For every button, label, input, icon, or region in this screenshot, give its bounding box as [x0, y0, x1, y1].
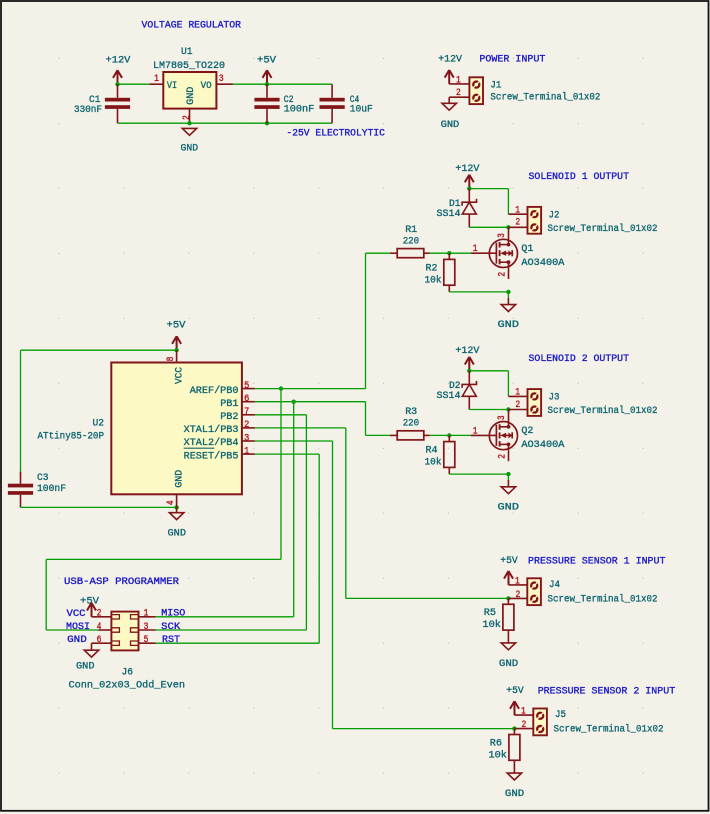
svg-text:+5V: +5V [506, 685, 524, 697]
svg-text:GND: GND [168, 528, 187, 540]
svg-text:1: 1 [521, 707, 526, 718]
svg-text:+12V: +12V [106, 54, 132, 66]
svg-text:+12V: +12V [455, 163, 480, 175]
svg-text:R4: R4 [426, 445, 438, 457]
svg-text:U2: U2 [93, 418, 105, 430]
svg-text:8: 8 [166, 357, 177, 362]
svg-text:2: 2 [182, 115, 193, 120]
svg-text:2: 2 [498, 272, 509, 277]
svg-text:SOLENOID 2 OUTPUT: SOLENOID 2 OUTPUT [529, 353, 630, 365]
svg-text:GND: GND [173, 470, 185, 488]
svg-text:Screw_Terminal_01x02: Screw_Terminal_01x02 [554, 724, 664, 736]
svg-text:Screw_Terminal_01x02: Screw_Terminal_01x02 [548, 405, 658, 417]
svg-text:2: 2 [244, 420, 249, 431]
svg-text:AREF/PB0: AREF/PB0 [190, 385, 239, 397]
svg-text:Screw_Terminal_01x02: Screw_Terminal_01x02 [548, 223, 658, 235]
svg-text:ATtiny85-20P: ATtiny85-20P [38, 431, 105, 443]
svg-text:100nF: 100nF [284, 104, 315, 116]
svg-text:2: 2 [516, 590, 521, 601]
svg-text:1: 1 [456, 76, 461, 87]
svg-text:GND: GND [505, 788, 524, 800]
svg-text:SS14: SS14 [437, 208, 461, 220]
svg-text:Q1: Q1 [521, 243, 533, 255]
svg-text:1: 1 [515, 388, 520, 399]
svg-text:Screw_Terminal_01x02: Screw_Terminal_01x02 [548, 593, 658, 605]
svg-text:SS14: SS14 [437, 390, 461, 402]
svg-text:SOLENOID 1 OUTPUT: SOLENOID 1 OUTPUT [529, 171, 630, 183]
svg-text:+5V: +5V [500, 555, 518, 567]
svg-text:VO: VO [201, 80, 212, 92]
svg-text:220: 220 [403, 418, 419, 430]
svg-text:R6: R6 [490, 737, 502, 749]
svg-text:GND: GND [181, 143, 199, 155]
svg-text:6: 6 [97, 635, 102, 646]
svg-text:10uF: 10uF [350, 104, 373, 116]
svg-text:3: 3 [497, 233, 508, 238]
svg-text:2: 2 [515, 400, 520, 411]
svg-text:GND: GND [185, 87, 197, 105]
svg-text:J2: J2 [549, 209, 560, 221]
svg-text:1: 1 [244, 446, 249, 457]
svg-text:1: 1 [473, 244, 478, 255]
svg-text:3: 3 [144, 622, 149, 633]
svg-text:2: 2 [456, 88, 461, 99]
svg-text:100nF: 100nF [37, 483, 66, 495]
svg-text:PB1: PB1 [220, 398, 238, 410]
svg-text:+12V: +12V [438, 53, 462, 65]
svg-text:U1: U1 [181, 46, 193, 58]
svg-text:10k: 10k [425, 457, 442, 469]
svg-text:4: 4 [166, 500, 177, 505]
svg-text:2: 2 [97, 609, 102, 620]
svg-text:2: 2 [498, 454, 509, 459]
svg-text:-25V ELECTROLYTIC: -25V ELECTROLYTIC [286, 128, 385, 140]
svg-text:2: 2 [522, 720, 527, 731]
svg-text:GND: GND [67, 634, 87, 646]
svg-text:J5: J5 [555, 709, 566, 721]
svg-text:J4: J4 [549, 579, 560, 591]
svg-text:10k: 10k [482, 619, 501, 631]
svg-text:J3: J3 [549, 392, 560, 404]
svg-text:RST: RST [162, 634, 180, 646]
svg-text:10k: 10k [488, 749, 507, 761]
svg-text:10k: 10k [425, 275, 442, 287]
svg-text:POWER INPUT: POWER INPUT [479, 53, 545, 65]
svg-text:Screw_Terminal_01x02: Screw_Terminal_01x02 [490, 91, 600, 103]
svg-text:1: 1 [144, 609, 149, 620]
svg-text:+12V: +12V [455, 345, 480, 357]
svg-text:3: 3 [244, 433, 249, 444]
svg-text:MISO: MISO [161, 608, 185, 620]
svg-text:3: 3 [219, 74, 224, 85]
svg-text:AO3400A: AO3400A [521, 257, 565, 269]
svg-text:MOSI: MOSI [66, 621, 90, 633]
svg-text:1: 1 [515, 577, 520, 588]
svg-text:7: 7 [244, 407, 249, 418]
svg-text:PRESSURE SENSOR 2 INPUT: PRESSURE SENSOR 2 INPUT [538, 686, 676, 698]
svg-text:6: 6 [244, 394, 249, 405]
svg-text:XTAL1/PB3: XTAL1/PB3 [184, 424, 239, 436]
svg-text:RESET/PB5: RESET/PB5 [184, 450, 239, 462]
svg-text:PB2: PB2 [220, 411, 238, 423]
svg-text:GND: GND [498, 319, 520, 331]
svg-text:330nF: 330nF [74, 104, 102, 116]
svg-text:Q2: Q2 [521, 425, 533, 437]
svg-text:1: 1 [515, 205, 520, 216]
svg-text:2: 2 [515, 218, 520, 229]
svg-text:1: 1 [154, 74, 159, 85]
svg-text:+5V: +5V [257, 54, 277, 66]
svg-text:XTAL2/PB4: XTAL2/PB4 [184, 437, 239, 449]
svg-text:5: 5 [244, 381, 249, 392]
svg-text:LM7805_TO220: LM7805_TO220 [153, 60, 225, 72]
svg-text:GND: GND [499, 658, 518, 670]
svg-text:+5V: +5V [167, 319, 187, 331]
svg-text:220: 220 [403, 235, 419, 247]
svg-text:VOLTAGE REGULATOR: VOLTAGE REGULATOR [142, 20, 242, 32]
svg-text:4: 4 [97, 622, 102, 633]
svg-text:J6: J6 [122, 667, 134, 679]
svg-text:USB-ASP PROGRAMMER: USB-ASP PROGRAMMER [64, 576, 180, 588]
svg-text:PRESSURE SENSOR 1 INPUT: PRESSURE SENSOR 1 INPUT [528, 556, 666, 568]
svg-text:3: 3 [497, 415, 508, 420]
svg-text:R5: R5 [484, 607, 496, 619]
svg-text:1: 1 [473, 426, 478, 437]
svg-text:GND: GND [498, 501, 520, 513]
svg-text:Conn_02x03_Odd_Even: Conn_02x03_Odd_Even [69, 680, 186, 692]
svg-text:R3: R3 [405, 406, 417, 418]
svg-text:VCC: VCC [173, 367, 185, 384]
svg-text:VCC: VCC [67, 608, 86, 620]
svg-text:R2: R2 [426, 263, 438, 275]
svg-text:R1: R1 [405, 224, 417, 236]
svg-text:SCK: SCK [161, 621, 181, 633]
svg-text:GND: GND [76, 661, 95, 673]
svg-text:J1: J1 [490, 80, 501, 92]
svg-text:VI: VI [167, 80, 177, 92]
svg-text:GND: GND [441, 119, 460, 131]
svg-text:5: 5 [144, 635, 149, 646]
svg-text:AO3400A: AO3400A [521, 439, 565, 451]
